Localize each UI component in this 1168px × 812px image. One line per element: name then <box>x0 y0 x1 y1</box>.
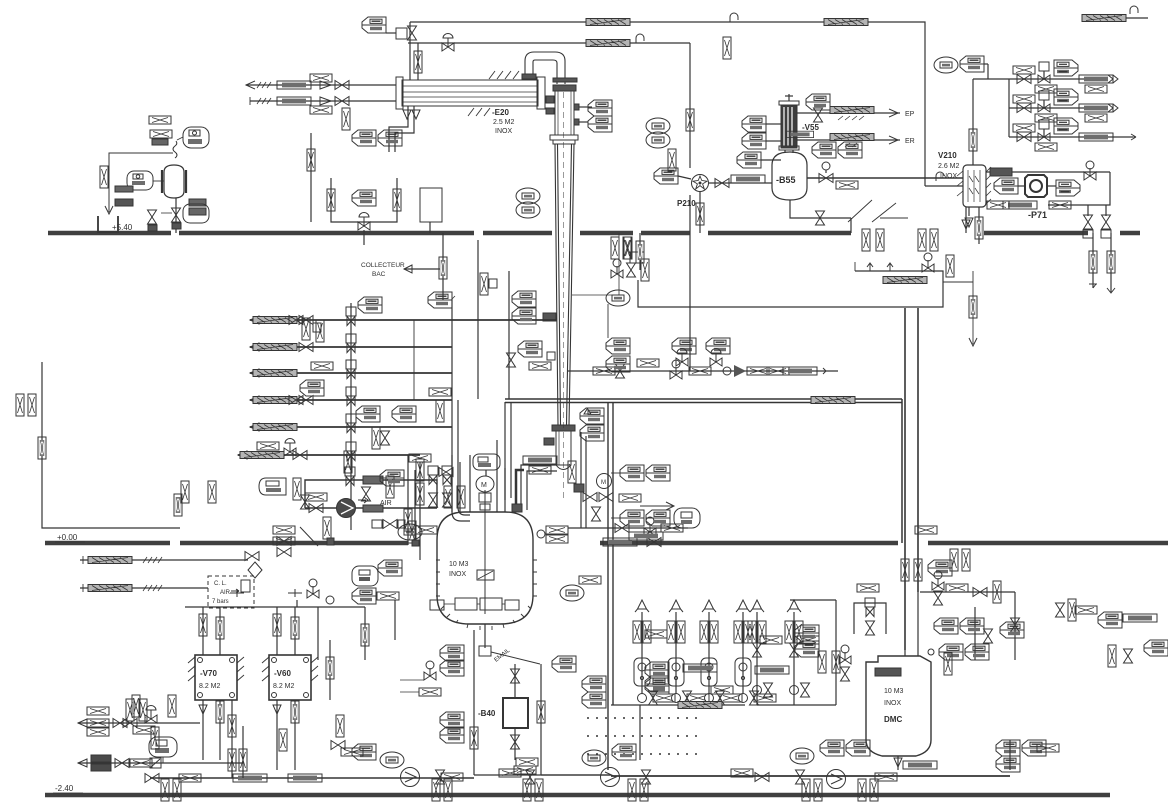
oval pair left of column <box>516 188 540 204</box>
air line <box>305 507 437 509</box>
vent group2 labels <box>755 666 789 674</box>
svg-text:10 M3: 10 M3 <box>884 688 904 695</box>
riser x975 bottom <box>974 607 976 660</box>
seal below V210 left <box>965 207 967 233</box>
svg-text:INOX: INOX <box>495 128 512 135</box>
feed3 fittings <box>311 362 333 370</box>
DMC left line <box>790 599 836 601</box>
small vessel top-left <box>164 165 184 198</box>
column axis <box>563 92 565 500</box>
control valve on line B <box>442 34 454 52</box>
scatter seal x672 <box>668 149 676 171</box>
vent group1 labels <box>678 702 722 709</box>
vertical x690 pump line <box>689 195 691 371</box>
svg-text:2.6 M2: 2.6 M2 <box>938 163 960 170</box>
below air cluster <box>273 526 295 534</box>
labels left of squiggle <box>150 130 172 138</box>
vertical main to DMC B <box>917 308 919 592</box>
air pump <box>337 499 356 518</box>
seal pair x619 <box>611 237 619 259</box>
pipe P210 to B55 <box>708 182 772 184</box>
line y723 <box>78 722 200 724</box>
column top left nozzle <box>546 96 554 103</box>
line y295 dashed <box>572 294 619 296</box>
pump P210 <box>692 175 709 192</box>
vertical line B to pump P210 <box>689 43 691 168</box>
tags right of DMC <box>934 618 958 634</box>
B40 drop line <box>514 664 516 698</box>
V210 left nozzle line <box>925 185 963 187</box>
air fittings <box>309 504 323 513</box>
cv on P71 line <box>1084 161 1096 180</box>
branch x988 <box>973 78 1009 80</box>
exchanger V70 <box>195 655 237 700</box>
right utility row 1 <box>1009 78 1108 80</box>
tag pair left y372 <box>606 338 630 354</box>
right row arrows <box>1108 75 1118 83</box>
E20 left flange <box>396 77 403 109</box>
oval instrument y295 <box>606 290 630 306</box>
pump3 valves <box>755 773 769 782</box>
vent stack 3 <box>708 612 710 694</box>
diagonal break marks <box>848 200 908 222</box>
vertical main to DMC A <box>904 308 906 650</box>
tag right of header <box>352 588 376 604</box>
hr crossing floor y543 <box>915 526 937 534</box>
manifold valve 3 <box>346 360 356 379</box>
seal pairs below B55 area <box>862 229 870 251</box>
vertical x1111 <box>1110 233 1112 292</box>
vertical x640 drop <box>639 233 641 270</box>
floor level +5.40 line <box>48 231 171 235</box>
hatch label on line A right <box>824 19 868 26</box>
tags right of B55 <box>812 142 836 158</box>
feed line to E20 upper <box>246 84 396 86</box>
svg-text:INOX: INOX <box>884 700 901 707</box>
hatch label on y400 <box>811 397 855 404</box>
V55 flange top <box>779 101 799 105</box>
feed1 fittings <box>289 316 303 325</box>
svg-text:DMC: DMC <box>884 715 902 724</box>
hatch label on line B <box>586 40 630 47</box>
V210 bottom seal <box>978 207 980 244</box>
feed2 fittings <box>299 343 313 352</box>
loop left cluster <box>630 252 644 263</box>
V210 bottom funnel <box>968 207 970 216</box>
vessel V210 <box>963 165 986 207</box>
tag pair mid-left of column <box>352 130 376 146</box>
tags above V55 right <box>806 94 830 110</box>
loop top arrows <box>867 263 893 271</box>
svg-text:AIR: AIR <box>220 590 231 596</box>
vessel B55 <box>772 152 807 200</box>
tags between vents <box>582 676 606 692</box>
seal pairs right x925 <box>918 229 926 251</box>
svg-text:7 bars: 7 bars <box>212 599 229 605</box>
svg-text:BAC: BAC <box>372 271 386 278</box>
reboiler cluster tags <box>620 465 644 481</box>
pump bottom 1 <box>401 768 420 787</box>
vapour pipe from E20 to column top <box>525 52 565 84</box>
vent stack 4 <box>742 612 744 694</box>
vertical x415 <box>414 470 416 540</box>
bottom header left <box>150 777 474 779</box>
feed line upper fittings <box>277 81 311 89</box>
instrument line y372 from column <box>568 370 838 372</box>
tag below floor x628 <box>624 237 632 259</box>
tag above air loop <box>344 451 352 473</box>
feed5 fittings <box>356 406 380 422</box>
reactor agitator shaft <box>484 490 486 614</box>
line to bucket <box>109 153 173 212</box>
solenoid box on line B <box>396 28 407 39</box>
P71 top line <box>986 171 1110 173</box>
pump P210 drop <box>699 192 701 233</box>
svg-text:INOX: INOX <box>940 173 957 180</box>
oval tag right above vessel <box>183 127 209 148</box>
svg-text:-B55: -B55 <box>776 175 796 185</box>
right cluster y615 <box>1056 603 1065 617</box>
reactor bottom boxes <box>455 598 477 610</box>
verticals to DMC <box>901 559 909 581</box>
svg-text:8.2 M2: 8.2 M2 <box>199 683 221 690</box>
oval tag y745 <box>149 737 177 757</box>
seal left of air loop <box>208 481 216 503</box>
column nozzle right lower <box>574 119 579 125</box>
hatch label right of elbow <box>523 456 557 464</box>
mid drains <box>329 640 331 700</box>
hatch label on line A <box>586 19 630 26</box>
column V55 packed <box>781 105 797 148</box>
B55 outlet line <box>807 177 963 179</box>
tall box x478 <box>477 240 479 399</box>
column tapered body <box>555 144 574 425</box>
line y763 <box>78 762 243 764</box>
vent hook on line A <box>730 13 738 22</box>
riser from E20 to headers <box>409 22 411 80</box>
svg-text:-2.40: -2.40 <box>55 784 74 793</box>
reboiler downcomer <box>580 432 582 528</box>
ER hatch <box>830 134 874 141</box>
tag below left V55 <box>737 152 761 168</box>
feed line to E20 lower <box>250 100 396 102</box>
manifold y592 <box>920 591 1015 593</box>
column top flange <box>553 85 576 91</box>
tag pair right of column top <box>588 100 612 116</box>
vent hook on line B <box>636 34 644 43</box>
manifold valve 2 <box>346 334 356 353</box>
svg-text:8.2 M2: 8.2 M2 <box>273 683 295 690</box>
hx header y607 <box>185 606 365 608</box>
cv left of B40 <box>424 661 436 680</box>
squiggle above vessel <box>173 141 177 158</box>
air loop top valve <box>345 467 355 486</box>
vessel bottom drop <box>175 198 177 233</box>
DMC left cluster tags <box>795 625 819 641</box>
tank DMC <box>866 656 931 756</box>
big loop rectangle <box>638 271 943 307</box>
seal x311 <box>310 133 312 222</box>
right edge tags <box>1144 640 1168 656</box>
far left seals <box>16 394 24 416</box>
seal on left drain <box>38 437 46 459</box>
vent stack 2 <box>675 612 677 694</box>
EP hatch <box>830 107 874 114</box>
B40 bottom labels <box>516 758 538 766</box>
seal pot tank <box>420 188 442 222</box>
v60 top piping <box>276 607 278 655</box>
vent header group2 <box>639 705 641 760</box>
vent stack B1 <box>756 612 758 705</box>
tags x340-360 <box>336 715 344 737</box>
V210 hatch right <box>986 167 991 204</box>
fittings on y372 <box>593 367 615 375</box>
reboiler line <box>568 527 688 529</box>
vertical x452 <box>452 299 470 521</box>
double process line y400 <box>505 398 902 400</box>
vertical x458 <box>458 400 470 515</box>
collecteur seal <box>442 233 444 300</box>
tag hexagon pair near pot <box>352 190 376 206</box>
P71 bottom labels <box>1003 201 1037 209</box>
drain pipe below E20 <box>389 106 408 152</box>
strainer on y372 <box>723 367 731 375</box>
column flange band <box>550 135 578 140</box>
reactor top nozzles <box>451 455 453 512</box>
far right mid tags <box>1000 622 1024 638</box>
vent stack B2 <box>793 612 795 705</box>
riser x365 <box>364 607 366 660</box>
air line seals below <box>323 517 331 539</box>
B55 drop to floor <box>850 218 852 233</box>
hl dark on P71 line <box>990 168 1012 176</box>
riser x505 to reactor <box>504 402 506 500</box>
feed lower fittings <box>277 97 311 105</box>
seal x960 floor <box>950 549 958 571</box>
tags left of B40 <box>440 645 464 661</box>
E20 hatch marks top <box>489 71 519 79</box>
V55 flange bottom <box>779 146 799 150</box>
bottom header mid <box>474 774 611 776</box>
cv on header <box>307 579 319 598</box>
seal on bucket line <box>100 166 108 188</box>
vertical x414 <box>413 320 415 400</box>
tags above right rows <box>934 57 958 73</box>
air loop top line <box>305 480 437 508</box>
feed6 fittings <box>257 442 279 450</box>
feed line 2 <box>250 346 452 348</box>
E20 right flange <box>537 77 545 109</box>
vertical x1093 <box>1092 233 1094 288</box>
tag triangle x588 <box>580 408 604 424</box>
feed4 fittings <box>289 396 303 405</box>
svg-text:M: M <box>601 480 606 486</box>
column bottoms elbow pipe <box>521 465 557 510</box>
svg-text:+5.40: +5.40 <box>112 223 133 232</box>
vent stack 1 <box>641 612 643 694</box>
svg-text:-E20: -E20 <box>492 108 509 117</box>
reboiler arrow line <box>619 494 641 502</box>
feed line 1 <box>250 319 556 321</box>
tank B40 <box>503 698 528 728</box>
column bottom nozzle left <box>544 438 554 445</box>
valves below P71 <box>1084 215 1093 229</box>
V55 vent <box>788 94 790 101</box>
v60 bottom piping <box>276 700 278 770</box>
drop x474 <box>473 630 475 775</box>
instrument above motor <box>473 454 500 470</box>
floor level -2.40 line <box>45 793 1110 797</box>
svg-text:-V55: -V55 <box>802 123 819 132</box>
svg-text:C. L.: C. L. <box>214 581 227 587</box>
manifold valve 6 <box>346 442 356 461</box>
top right corner label <box>1082 15 1126 22</box>
svg-text:COLLECTEUR: COLLECTEUR <box>361 262 405 269</box>
hatch label on loop <box>883 277 927 284</box>
tag v70 left <box>126 699 134 721</box>
hatch label above <box>149 116 171 124</box>
reactor left line <box>419 462 421 545</box>
feed line 6 <box>238 454 420 456</box>
DMC top nozzles <box>904 650 906 656</box>
tag pair mid y372 <box>672 338 696 354</box>
pump bottom 3 <box>827 770 846 789</box>
B40 bottom line <box>514 728 516 760</box>
svg-text:-V70: -V70 <box>200 669 217 678</box>
vent group2 header <box>835 628 837 705</box>
line y585 <box>80 587 208 589</box>
reboiler motor circle <box>597 474 612 489</box>
reboiler valves <box>583 493 597 502</box>
reactor top valves <box>428 466 438 485</box>
ER line <box>797 139 900 141</box>
heat exchanger E20 shell <box>402 80 538 106</box>
EP line <box>797 112 900 114</box>
column bottom cap <box>556 465 571 470</box>
tag FI top-left <box>362 17 386 33</box>
svg-text:M: M <box>481 482 487 489</box>
v70 bottom piping <box>202 700 204 760</box>
pump1 valves <box>436 770 445 784</box>
column bottom section <box>556 431 571 465</box>
DMC inner label <box>875 668 901 676</box>
pump2 valves <box>526 770 535 784</box>
tags right of outlet <box>552 656 576 672</box>
oval instrument left of vessel <box>127 171 153 190</box>
svg-text:-P71: -P71 <box>1028 210 1047 220</box>
V210 hatch left <box>957 171 963 196</box>
tag pair below left <box>189 199 206 206</box>
manifold valve 1 <box>346 307 356 326</box>
right utility row 3 <box>1009 136 1108 138</box>
B55 bottom line <box>790 200 851 218</box>
reactor jacket ticks <box>436 560 537 630</box>
manifold x351 <box>350 303 352 530</box>
feed line 4 <box>250 399 452 401</box>
tags left of V55 <box>646 118 670 134</box>
svg-text:+0.00: +0.00 <box>57 533 78 542</box>
column top section <box>555 91 574 135</box>
right utility row 2 <box>1009 107 1108 109</box>
left drain L <box>42 362 180 528</box>
svg-text:-B40: -B40 <box>478 709 496 718</box>
svg-text:ER: ER <box>905 138 915 145</box>
DMC loop left <box>854 603 886 634</box>
tag right of P71 <box>1056 180 1080 196</box>
control valve seal pot <box>358 213 370 231</box>
manifold valve 5 <box>346 414 356 433</box>
feed line 5 <box>250 426 452 428</box>
bottom risers <box>231 700 233 778</box>
tag left of reactor <box>380 470 404 486</box>
bottom left cluster <box>145 774 159 783</box>
svg-text:EP: EP <box>905 111 915 118</box>
reactor motor stand <box>479 493 491 502</box>
valve on B55 outlet <box>819 174 833 183</box>
reactor motor <box>476 476 494 492</box>
P71 loop right <box>1048 172 1110 205</box>
pump bottom 2 <box>601 768 620 787</box>
reactor top hr <box>415 526 437 534</box>
seal on x973 <box>969 129 977 151</box>
pump P71 <box>1025 175 1047 197</box>
column bottom flange <box>552 425 575 431</box>
floor level +0.00 line <box>45 541 170 545</box>
pipe header line B <box>408 42 690 44</box>
vent header group1 <box>611 704 745 706</box>
column feed nozzle <box>543 313 556 321</box>
DMC top left cluster <box>928 560 952 576</box>
tag octagon right <box>857 584 879 592</box>
exchanger V60 <box>269 655 311 700</box>
manifold valve 4 <box>346 387 356 406</box>
line y560 <box>80 559 248 561</box>
drop line x973 <box>943 281 973 283</box>
labels on y372 right <box>747 367 769 375</box>
tag left of P210 <box>654 168 678 184</box>
seal on vertical 690 <box>686 109 694 131</box>
E20 hatch marks bottom <box>468 108 490 116</box>
feed line 3 <box>250 372 452 374</box>
v70 top piping <box>202 607 204 655</box>
drop from reactor zone x395 <box>394 600 396 640</box>
seal pot legs <box>331 178 397 222</box>
svg-text:V210: V210 <box>938 151 957 160</box>
diamond valve <box>248 562 262 578</box>
reactor outlet <box>484 624 486 648</box>
oval tag lower right <box>183 204 209 223</box>
vertical x973 V210 feed <box>972 79 974 165</box>
svg-text:10 M3: 10 M3 <box>449 561 469 568</box>
svg-text:-V60: -V60 <box>274 669 291 678</box>
tag pair below collecteur <box>428 292 452 308</box>
dark label left <box>115 186 133 192</box>
vertical double x611 <box>607 402 609 770</box>
bottom header right <box>611 775 1010 777</box>
svg-text:P210: P210 <box>677 199 696 208</box>
seal rect pair x727 <box>723 37 731 59</box>
tag left of P71 <box>994 178 1018 194</box>
tag pair reboiler lower <box>620 510 644 526</box>
air dashed box <box>208 576 254 608</box>
right drop x541 <box>540 664 542 775</box>
DMC bottom outlet <box>897 756 899 770</box>
valve left of drop <box>148 210 157 224</box>
reactor right floor tag <box>537 530 545 538</box>
left drop lines <box>419 545 421 560</box>
air loop left tag <box>259 478 286 495</box>
seal on riser <box>414 51 422 73</box>
